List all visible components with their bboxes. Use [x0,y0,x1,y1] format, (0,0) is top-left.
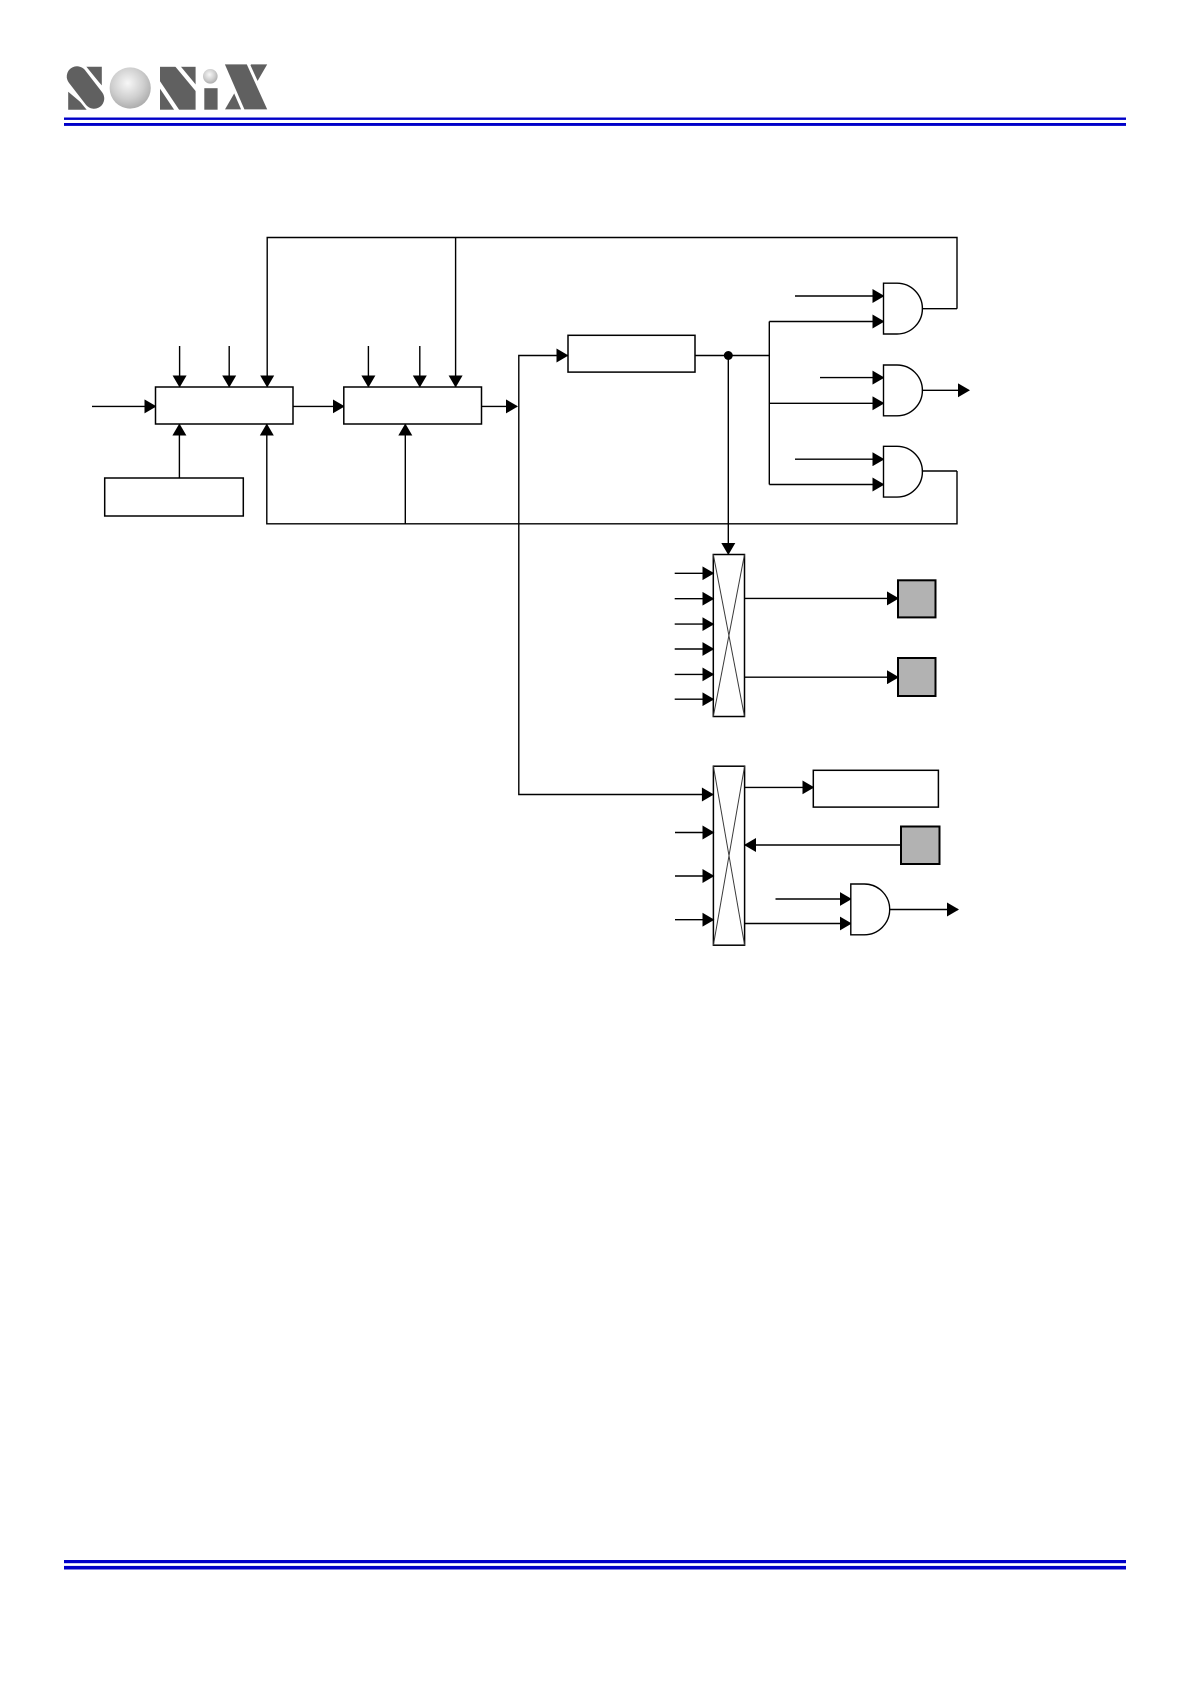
wire: top feedback line [267,238,957,388]
wire OSC to REG1 bottom [178,426,180,478]
wire to AND1 in2 [769,321,883,323]
wire REG1 to REG2 [293,405,344,407]
MUX1 output wire to pad 1 [745,597,899,599]
block REG2 [344,387,482,424]
wire: drop to REG2 top [455,238,457,388]
gate input branch vertical [768,322,770,485]
AND gate 2 [884,365,923,416]
block OSC (bottom-left) [105,478,244,516]
vertical bus x=518.8 [519,356,714,795]
io pad square 2 [898,658,936,696]
AND gate 3 [884,446,923,497]
header rule line 2 [64,123,1126,126]
block REG1 [156,387,294,424]
wire REG2 to vertical bus [482,405,518,407]
floating wire AND4 in1 [776,898,851,900]
MUX1 input wires [675,573,714,699]
AND gate 2 output wire [922,389,969,391]
wire to AND3 in2 [769,484,883,486]
AND gate 4 [851,884,890,935]
io pad square 1 [898,580,936,617]
arrow down into REG1 top from top line [260,376,274,388]
wire MUX2 to AND4 in2 [745,923,851,925]
wire junction down to MUX1 [727,356,729,553]
AND gate 1 [884,283,923,334]
wire to AND2 in2 [769,402,883,404]
junction node [724,351,733,360]
footer rule line 1 [64,1560,1126,1563]
block DIV (top right of REG2) [568,335,695,372]
floating input arrows into REG1 top [179,346,181,385]
bottom feedback line [267,424,957,524]
io pad square 3 [901,827,940,865]
floating wire AND3 in1 [795,458,884,460]
wire pad3 into MUX2 (leftward) [745,844,901,846]
AND gate 1 output wire [922,308,957,310]
footer rule line 2 [64,1566,1126,1570]
AND gate 4 output wire [889,909,958,911]
MUX1 output wire to pad 2 [745,676,899,678]
AND gate 3 output wire [922,470,957,472]
floating input arrows into REG2 top [367,346,369,385]
input wire into REG1 [92,405,156,407]
MUX2 output wire to buffer block [745,786,814,788]
wire up into REG2 bottom [404,426,406,524]
MUX1 crossbar [713,555,744,717]
logo letter i [203,69,218,110]
logo letter N [155,61,200,118]
logo letter X [222,58,270,115]
MUX2 input wires [675,833,713,920]
floating wire AND1 in1 [795,295,884,297]
logo sphere O [110,67,151,108]
logo letter S [68,66,103,110]
block buffer (right of MUX2) [813,770,938,807]
floating wire AND2 in1 [820,377,884,379]
header rule line 1 [64,118,1126,120]
wire DIV to junction and gate branch [695,355,769,357]
MUX2 crossbar [713,766,744,945]
